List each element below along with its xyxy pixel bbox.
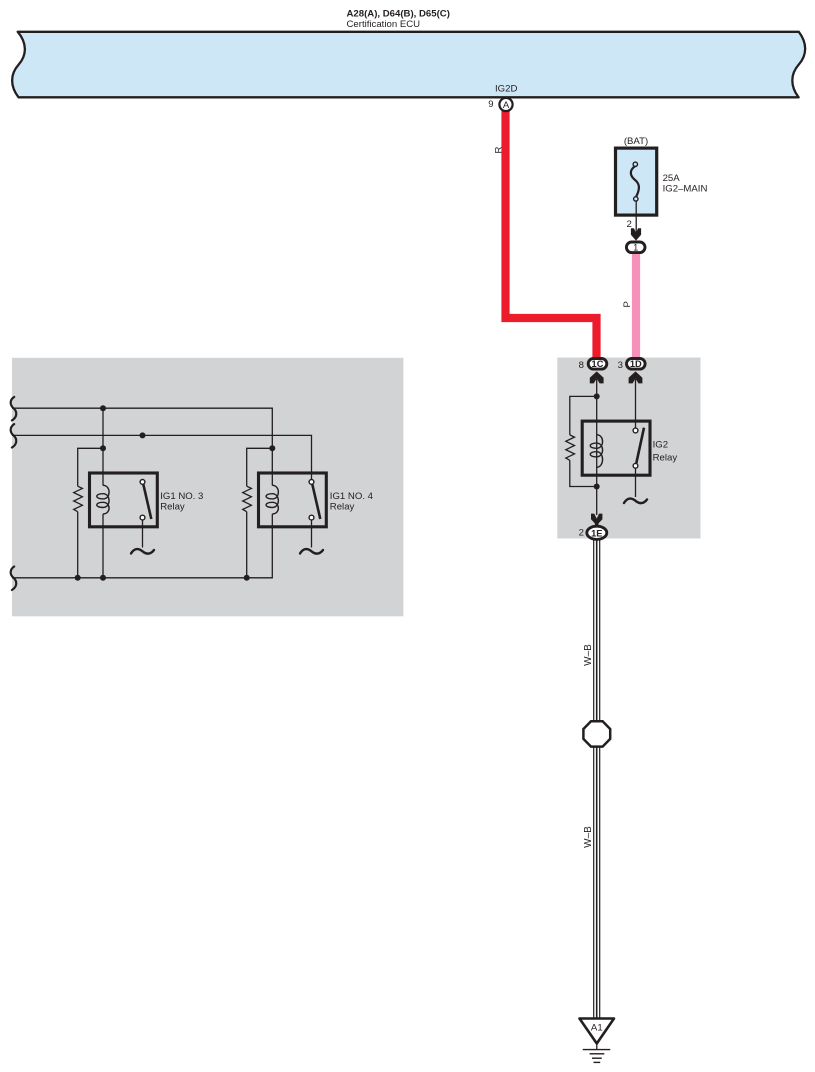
svg-text:2: 2 bbox=[579, 528, 584, 539]
svg-text:(BAT): (BAT) bbox=[624, 136, 648, 147]
svg-text:R: R bbox=[493, 146, 504, 153]
svg-text:P: P bbox=[622, 301, 633, 307]
svg-text:IG2D: IG2D bbox=[495, 84, 517, 95]
svg-text:Relay: Relay bbox=[653, 453, 678, 464]
svg-text:IG2: IG2 bbox=[653, 440, 668, 451]
svg-text:IG1 NO. 4: IG1 NO. 4 bbox=[330, 491, 374, 502]
svg-text:W–B: W–B bbox=[583, 644, 594, 666]
svg-text:2: 2 bbox=[627, 219, 632, 230]
svg-text:IG1 NO. 3: IG1 NO. 3 bbox=[160, 491, 203, 502]
svg-text:9: 9 bbox=[488, 99, 493, 110]
svg-text:IG2–MAIN: IG2–MAIN bbox=[663, 184, 708, 195]
svg-text:A: A bbox=[503, 100, 510, 111]
svg-text:A28(A), D64(B), D65(C): A28(A), D64(B), D65(C) bbox=[347, 9, 450, 20]
svg-text:Certification ECU: Certification ECU bbox=[347, 19, 421, 30]
svg-text:3: 3 bbox=[618, 360, 623, 371]
svg-text:W–B: W–B bbox=[583, 826, 594, 848]
svg-text:1D: 1D bbox=[630, 359, 642, 369]
svg-text:1E: 1E bbox=[591, 528, 602, 538]
svg-text:1C: 1C bbox=[592, 359, 604, 369]
svg-text:8: 8 bbox=[579, 360, 584, 371]
svg-text:A1: A1 bbox=[591, 1023, 603, 1034]
svg-text:25A: 25A bbox=[663, 173, 681, 184]
svg-text:Relay: Relay bbox=[160, 502, 185, 513]
svg-text:Relay: Relay bbox=[330, 502, 355, 513]
svg-text:1: 1 bbox=[633, 243, 638, 253]
